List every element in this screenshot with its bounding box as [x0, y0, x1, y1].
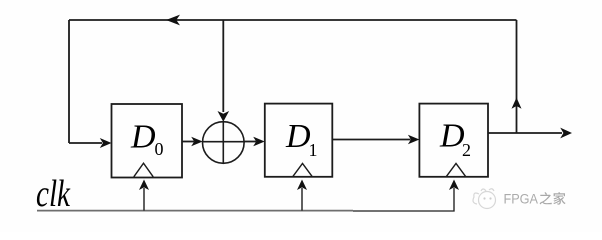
wire: D0 to XOR — [182, 141, 194, 143]
arrowhead: down into XOR — [218, 111, 230, 122]
watermark char 之 — [540, 192, 552, 204]
svg-text:0: 0 — [155, 139, 164, 159]
arrowhead: up on right feedback — [512, 98, 522, 109]
arrowhead: into D0 — [100, 138, 112, 148]
svg-text:clk: clk — [36, 173, 71, 215]
arrowhead: clk up into D2 — [449, 180, 459, 191]
wire: clk riser to D1 — [301, 188, 303, 211]
svg-text:D: D — [285, 118, 311, 155]
arrowhead: into D2 — [408, 135, 420, 145]
watermark logo — [473, 189, 496, 209]
arrowhead: output right — [560, 128, 572, 139]
wire: D1 to D2 — [332, 139, 410, 141]
wire: into D0 — [69, 142, 102, 144]
watermark char 家 — [553, 192, 565, 205]
flip-flop D0 clock triangle — [134, 163, 153, 177]
wire: D2 output — [488, 132, 562, 134]
svg-text:D: D — [130, 119, 156, 156]
arrowhead: left on top feedback — [166, 15, 180, 26]
svg-text:1: 1 — [309, 140, 318, 160]
wire: top feedback horizontal — [69, 19, 517, 21]
svg-text:FPGA: FPGA — [504, 192, 539, 207]
arrowhead: into D1 — [253, 137, 265, 147]
arrowhead: clk up into D0 — [139, 180, 149, 191]
svg-text:2: 2 — [462, 140, 471, 160]
flip-flop D1 clock triangle — [293, 163, 312, 176]
flip-flop D1 box — [265, 104, 333, 177]
wire: feedback down into XOR — [222, 20, 224, 112]
arrowhead: into XOR from D0 — [191, 137, 203, 147]
wire: clk riser to D0 — [143, 188, 145, 211]
wire: right feedback vertical — [516, 20, 518, 133]
flip-flop D0 box — [112, 104, 183, 178]
XOR gate U1 — [203, 122, 245, 164]
arrowhead: clk up into D1 — [297, 180, 307, 191]
wire: XOR to D1 — [244, 141, 256, 143]
wire: left feedback vertical — [68, 20, 70, 143]
wire: clk horizontal continuation to D2 riser — [353, 188, 454, 211]
wire: clk horizontal (gray) — [37, 210, 353, 212]
flip-flop D2 clock triangle — [446, 163, 465, 176]
flip-flop D2 box — [419, 104, 488, 177]
